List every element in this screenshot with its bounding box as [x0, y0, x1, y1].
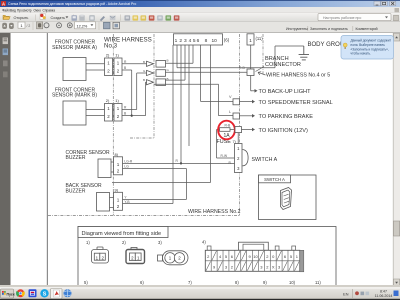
select tool icon: [44, 23, 49, 28]
navigation sidebar: [0, 33, 11, 287]
wire pin8 drop to speedometer: [200, 45, 202, 101]
tray right icon: [394, 291, 399, 297]
svg-text:2: 2: [117, 169, 120, 174]
svg-text:1: 1: [175, 38, 178, 44]
svg-text:10: 10: [212, 38, 218, 44]
connector drawing 1: [92, 247, 109, 263]
svg-text:Файл: Файл: [2, 8, 10, 12]
wire Y-B back buzzer pin2 (drawn with pin1 drop): [123, 203, 174, 205]
svg-text:R-B: R-B: [239, 66, 245, 70]
wire harness No.2 boundary chain line (horizontal): [48, 215, 240, 217]
wire connector 11 down to branch connector: [250, 45, 252, 69]
wire to body ground: [274, 46, 276, 68]
svg-text:чтобы начать.: чтобы начать.: [351, 52, 372, 56]
switch A drawing (3D): [281, 188, 292, 210]
svg-text:SWITCH A: SWITCH A: [264, 177, 285, 182]
connector V (speedometer): [233, 99, 240, 105]
wire pin10 drop to buzzer area: [210, 45, 212, 183]
panel tabs: [307, 26, 309, 31]
scrollbar up button: [394, 34, 400, 42]
SWITCH A picture label box: [259, 175, 291, 183]
expand icon: [394, 15, 399, 21]
wire sensor B pin1 to connector: [86, 109, 105, 111]
customize combo box: [318, 14, 391, 21]
svg-text:(11): (11): [256, 36, 264, 41]
svg-text:No.3: No.3: [104, 43, 118, 50]
svg-text:Открыть: Открыть: [14, 16, 29, 20]
label BRANCH CONNECTOR: [256, 56, 301, 72]
fuse F1 1A body: [220, 128, 231, 132]
svg-text:LG-R: LG-R: [124, 159, 132, 163]
node junction R line: [180, 162, 182, 164]
svg-text:Создать: Создать: [51, 16, 65, 20]
wire sensor B pin2 to joint arrow 3: [122, 115, 146, 117]
svg-text:Инструменты: Инструменты: [286, 27, 308, 31]
svg-text:Комментарий: Комментарий: [356, 27, 378, 31]
svg-text:L: L: [229, 110, 231, 114]
arrow to parking brake: [240, 114, 256, 118]
svg-text:Y-B: Y-B: [124, 200, 130, 204]
svg-text:/ 2: / 2: [27, 24, 31, 28]
start button: [1, 289, 15, 298]
svg-text:TO BACK-UP LIGHT: TO BACK-UP LIGHT: [259, 89, 312, 95]
scrollbar track: [393, 33, 400, 287]
node junction sensor B pin2: [131, 115, 133, 117]
svg-text:R-B: R-B: [225, 124, 231, 128]
wire pin6 drop to joint box 1: [192, 45, 194, 63]
connector L (parking brake): [233, 113, 240, 119]
svg-text:Данный документ содержит: Данный документ содержит: [351, 39, 392, 43]
harness boundary chain line (vertical, through sensor connectors): [112, 34, 114, 216]
tray icons: [355, 291, 369, 295]
chrome icon: [16, 289, 25, 297]
page number box: [18, 22, 25, 28]
joint connector arrow 1: [147, 61, 154, 66]
svg-text:SENSOR (MARK B): SENSOR (MARK B): [52, 93, 97, 99]
zoom level box: [75, 22, 96, 29]
wire branch connector to back-up light: [250, 76, 252, 91]
svg-text:5): 5): [84, 280, 88, 285]
buzzer back sensor body: [97, 193, 110, 212]
svg-text:4): 4): [202, 239, 206, 244]
svg-text:5: 5: [193, 38, 196, 44]
svg-text:Настроить рабочие про: Настроить рабочие про: [323, 16, 361, 20]
svg-text:11.06.2014: 11.06.2014: [375, 294, 393, 298]
svg-text:BUZZER: BUZZER: [66, 188, 86, 194]
connector drawing 3: [158, 251, 189, 265]
svg-text:11): 11): [315, 280, 321, 285]
tooltip text: [351, 39, 392, 56]
svg-text:6): 6): [140, 280, 144, 285]
harness boundary chain line (vertical, wire harness No.4/5): [262, 34, 264, 75]
page left border: [46, 33, 48, 285]
arrow to back-up light: [251, 89, 258, 93]
menu bar right icon: [395, 8, 400, 12]
wire harness feed to parking brake: [154, 83, 219, 85]
sidebar attachments icon: [3, 61, 8, 67]
harness boundary chain line (vertical, at joint arrows): [153, 34, 155, 138]
toolbar row 1: [0, 13, 400, 22]
svg-text:CONNECTOR: CONNECTOR: [265, 62, 301, 68]
svg-text:EN: EN: [343, 292, 349, 297]
tray divider: [352, 289, 354, 298]
app icon: [1, 1, 6, 6]
connector 2)/1) sensor B: [105, 98, 123, 121]
fit page icon: [113, 22, 120, 29]
svg-text:«Заполнить и подписать»,: «Заполнить и подписать»,: [351, 47, 389, 51]
tooltip popup: [341, 36, 394, 60]
hand tool icon: [37, 22, 43, 29]
ground (body ground symbol): [299, 46, 309, 60]
svg-text:12,2%: 12,2%: [77, 24, 88, 28]
svg-text:3): 3): [158, 240, 162, 245]
svg-text:A: A: [2, 1, 5, 6]
svg-text:TO IGNITION (12V): TO IGNITION (12V): [259, 128, 308, 134]
harness boundary chain line (vertical, right of fuse/switch): [239, 34, 241, 216]
svg-text:Diagram viewed from fitting si: Diagram viewed from fitting side: [82, 231, 162, 237]
connector 2)/1) sensor A: [105, 53, 123, 76]
svg-text:SWITCH A: SWITCH A: [252, 157, 278, 163]
arrow to ignition: [242, 128, 256, 132]
app bottom edge: [0, 285, 400, 288]
svg-text:Окно: Окно: [34, 8, 42, 12]
skype icon: [40, 289, 48, 297]
sidebar signatures icon: [3, 72, 8, 78]
svg-text:S: S: [43, 291, 47, 297]
svg-text:B: B: [167, 59, 169, 63]
svg-text:(6): (6): [224, 38, 230, 43]
svg-text:8): 8): [235, 280, 239, 285]
legend frame: [78, 227, 336, 287]
svg-text:4: 4: [189, 38, 192, 44]
buzzer BACK SENSOR BUZZER label: [66, 183, 103, 194]
svg-text:BUZZER: BUZZER: [66, 155, 86, 161]
clock: [375, 290, 393, 298]
wire sensor A pin2 down to node: [122, 69, 132, 71]
wire sensor A pin1 to connector: [86, 63, 105, 65]
toolbar icons (comment cluster): [125, 15, 180, 20]
sidebar page thumbnails icon: [3, 38, 8, 45]
connector (6) pin header: [174, 34, 223, 45]
svg-text:8: 8: [205, 38, 208, 44]
wire sensor B pin2 to connector: [86, 115, 105, 117]
zoom in button: [67, 23, 72, 28]
toolbar row 2: [0, 22, 400, 33]
joint connector box 1: [156, 61, 166, 68]
svg-text:Вид: Вид: [10, 8, 16, 12]
wire Y back buzzer pin1: [123, 198, 187, 200]
globe icon: [64, 289, 72, 297]
wire sensor A pin1 to joint arrow 1: [122, 63, 147, 65]
svg-text:10): 10): [289, 280, 296, 285]
wire fuse down to switch R-W: [216, 130, 218, 159]
legend row2 labels 5)-11): [84, 280, 321, 285]
toolbar icons (save, print, etc.): [72, 15, 116, 22]
wire pin2 drop to body ground line: [176, 45, 178, 68]
fit width icon: [104, 22, 111, 29]
scrollbar down button: [394, 279, 400, 287]
wire pin5 drop: [188, 45, 190, 146]
svg-text:X: X: [272, 265, 275, 270]
arrow to speedometer: [240, 100, 256, 104]
wire pin4 drop to joint box 3: [184, 45, 186, 80]
label WIRE HARNESS No.3: [104, 37, 152, 50]
joint connector box 2: [156, 70, 166, 77]
sidebar bookmarks icon: [3, 49, 8, 56]
svg-text:2: 2: [117, 204, 120, 209]
svg-text:SENSOR (MARK A): SENSOR (MARK A): [52, 45, 97, 51]
menu bar: [0, 7, 400, 13]
branch connector box: [247, 69, 254, 76]
svg-text:Схема Рено подключения датчико: Схема Рено подключения датчиков парковоч…: [8, 2, 136, 6]
svg-text:FUSE: FUSE: [217, 139, 232, 145]
svg-text:Заполнить и подписать: Заполнить и подписать: [310, 27, 348, 31]
svg-text:Пуск: Пуск: [7, 293, 15, 297]
sensor FRONT CORNER SENSOR (MARK B) body: [63, 101, 86, 125]
connector ignition: [235, 127, 242, 133]
highlight circle around fuse (red): [218, 121, 235, 140]
wire LG corner buzzer pin2: [123, 168, 187, 170]
joint connector arrow 3: [147, 80, 154, 85]
svg-text:1: 1: [249, 38, 252, 43]
svg-text:6: 6: [197, 38, 200, 44]
sensor FRONT CORNER SENSOR (MARK A) label: [52, 40, 97, 51]
svg-text:1): 1): [86, 240, 90, 245]
svg-text:поля. Выберите панель: поля. Выберите панель: [351, 43, 386, 47]
SWITCH A picture frame: [259, 175, 317, 220]
create button: [40, 14, 68, 20]
taskbar: [0, 288, 400, 300]
svg-text:TO PARKING BRAKE: TO PARKING BRAKE: [259, 114, 314, 120]
scrollbar thumb: [394, 221, 400, 236]
svg-text:1: 1: [117, 198, 120, 203]
svg-text:1: 1: [117, 162, 120, 167]
sensor FRONT CORNER SENSOR (MARK A) body: [63, 58, 86, 81]
legend title box: [78, 227, 168, 238]
switch A body bump: [243, 150, 249, 166]
nav buttons: [2, 23, 14, 29]
wire pin1 drop to back buzzer Y-B: [172, 45, 174, 204]
wire ignition connector down to switch pin1: [237, 133, 239, 147]
connector switch A (pins 1,2,3): [235, 144, 243, 173]
svg-text:Справка: Справка: [43, 8, 56, 12]
joint connector arrow 2: [147, 70, 154, 75]
wire fuse line: [217, 129, 236, 131]
wire pin3 drop to buzzer R line junction: [180, 45, 182, 163]
svg-text:9): 9): [263, 280, 267, 285]
svg-text:R-W: R-W: [221, 154, 228, 158]
wire sensor A pin2 to connector: [86, 69, 105, 71]
svg-text:2): 2): [122, 240, 126, 245]
svg-text:B: B: [143, 60, 145, 64]
svg-text:8:47: 8:47: [380, 290, 387, 294]
connector drawing 2: [126, 248, 145, 264]
harness boundary chain line (horizontal jog y=138): [130, 137, 154, 139]
label WIRE HARNESS No.4 or 5 with arrow: [258, 72, 330, 79]
connector drawing 4 (multi-pin): [205, 242, 303, 272]
wire joint box2 to branch connector: [166, 71, 248, 73]
connector (11) single pin: [247, 34, 254, 45]
svg-text:7): 7): [188, 280, 192, 285]
svg-text:3: 3: [184, 38, 187, 44]
svg-text:10: 10: [253, 254, 258, 259]
zoom out button: [57, 23, 62, 28]
title bar: [0, 0, 400, 7]
svg-text:WIRE HARNESS No.2: WIRE HARNESS No.2: [188, 209, 241, 215]
svg-text:B: B: [143, 78, 145, 82]
svg-text:Просмотр: Просмотр: [17, 8, 32, 12]
joint connector box 3: [156, 79, 166, 86]
svg-text:2: 2: [179, 38, 182, 44]
sensor FRONT CORNER SENSOR (MARK B) label: [52, 87, 97, 98]
svg-text:LG: LG: [124, 165, 129, 169]
buzzer CORNER SENSOR BUZZER label: [66, 150, 111, 161]
window buttons: [374, 1, 396, 6]
wire LG-R corner buzzer pin1 to switch: [123, 162, 235, 164]
blue app icon: [29, 289, 37, 297]
tooltip lightbulb icon: [343, 43, 347, 49]
buzzer corner sensor body: [98, 159, 111, 178]
wire sensor B pin1 up to joint arrow 2: [122, 109, 137, 111]
connector 9) back buzzer: [110, 187, 123, 210]
svg-text:WIRE HARNESS No.4 or 5: WIRE HARNESS No.4 or 5: [266, 73, 330, 79]
connector 8) corner buzzer: [111, 152, 123, 175]
acrobat button (active): [51, 289, 63, 299]
svg-text:TO SPEEDOMETER SIGNAL: TO SPEEDOMETER SIGNAL: [259, 100, 333, 106]
open button: [3, 15, 28, 20]
